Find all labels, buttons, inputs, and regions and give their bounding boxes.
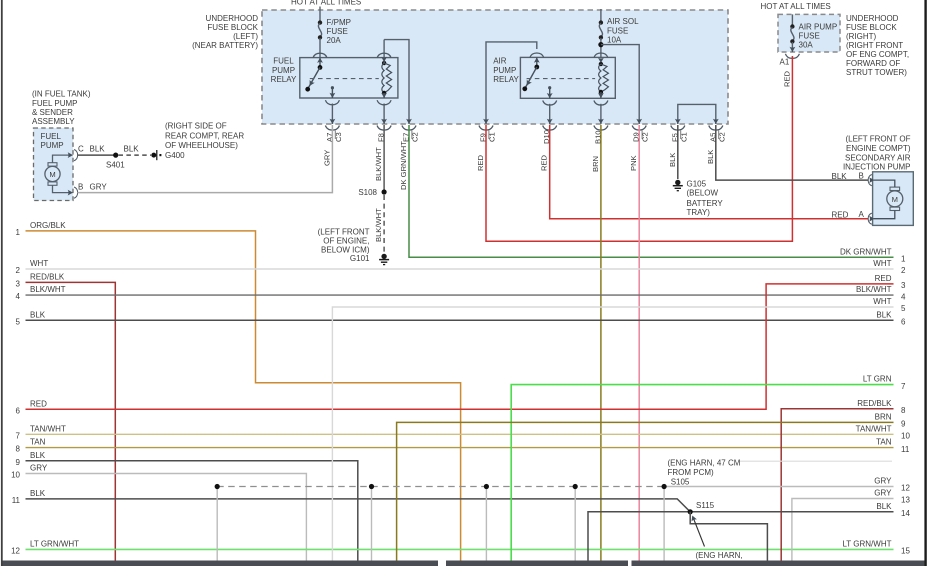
wire S401 to G400 dashed <box>119 154 152 156</box>
wire fuel relay A7 pin to border <box>331 104 333 125</box>
pin A7/C3 connector at border <box>325 126 343 143</box>
label F/PMP FUSE 20A <box>327 18 351 45</box>
svg-text:G101: G101 <box>350 254 370 263</box>
svg-text:UNDERHOOD: UNDERHOOD <box>206 14 259 23</box>
wire air pump pin B to motor <box>874 180 895 187</box>
splice drop wire at 217 <box>216 487 218 561</box>
arrow into air relay switch pin <box>534 57 540 62</box>
svg-text:BLK: BLK <box>876 310 892 319</box>
svg-text:C3: C3 <box>334 132 343 142</box>
svg-text:RED: RED <box>540 154 549 171</box>
svg-text:5: 5 <box>16 317 21 326</box>
svg-text:FUEL: FUEL <box>41 132 62 141</box>
secondary air injection pump box <box>873 172 914 226</box>
svg-text:DK GRN/WHT: DK GRN/WHT <box>840 247 892 256</box>
svg-text:TRAY): TRAY) <box>687 208 711 217</box>
svg-text:10: 10 <box>901 432 910 441</box>
right row labels and numbers <box>840 247 911 555</box>
svg-text:BRN: BRN <box>591 156 600 172</box>
svg-text:(RIGHT FRONT: (RIGHT FRONT <box>846 41 903 50</box>
svg-text:3: 3 <box>16 280 21 289</box>
svg-text:BLK: BLK <box>30 451 46 460</box>
air relay output stub D10 <box>547 86 553 98</box>
connector arc below A1 pin <box>785 54 799 59</box>
wire pin C to S401 <box>78 154 116 156</box>
label (ENG HARN, 47 CM FROM PCM) S105 <box>668 458 741 486</box>
svg-text:BRN: BRN <box>875 413 892 422</box>
svg-text:(RIGHT): (RIGHT) <box>846 32 877 41</box>
svg-text:6: 6 <box>901 317 906 326</box>
svg-text:PUMP: PUMP <box>272 66 295 75</box>
svg-text:BATTERY: BATTERY <box>687 199 724 208</box>
svg-text:RED/BLK: RED/BLK <box>857 399 892 408</box>
fuel pump & sender assembly dashed box <box>34 128 74 201</box>
svg-text:1: 1 <box>901 254 906 263</box>
wire S108 to G101 dashed BLK/WHT <box>383 195 385 253</box>
svg-text:GRY: GRY <box>874 489 892 498</box>
svg-text:TAN: TAN <box>30 438 46 447</box>
svg-text:C1: C1 <box>488 132 497 142</box>
junction AIR SOL fuse output node <box>598 42 603 47</box>
arrow D9 wire at border <box>636 119 642 124</box>
label (LEFT FRONT OF ENGINE, BELOW ICM) G101 <box>318 228 370 263</box>
label FUEL PUMP RELAY <box>271 56 297 84</box>
wire BLK F5 to G105 <box>677 125 679 179</box>
svg-text:UNDERHOOD: UNDERHOOD <box>846 14 899 23</box>
wire PNK D9 down off page <box>638 125 640 561</box>
fuel pump relay U1 box <box>300 58 398 98</box>
svg-text:F/PMP: F/PMP <box>327 18 351 27</box>
svg-text:6: 6 <box>16 406 21 415</box>
fuse AIR SOL 10A <box>599 9 603 57</box>
svg-text:WHT: WHT <box>873 297 891 306</box>
svg-text:BLK/WHT: BLK/WHT <box>374 147 383 181</box>
svg-text:C1: C1 <box>679 132 688 142</box>
splice S105 <box>663 487 665 561</box>
wire row12 LT GRN/WHT <box>11 540 893 556</box>
wire row4 BLK/WHT <box>16 285 894 301</box>
wire fuel pump motor to pin B <box>53 185 69 192</box>
svg-text:3: 3 <box>901 281 906 290</box>
svg-text:2: 2 <box>901 266 906 275</box>
air pump pin B connector <box>868 175 874 186</box>
svg-text:STRUT TOWER): STRUT TOWER) <box>846 68 907 77</box>
connector arc below fuel relay A7 pin <box>325 100 339 105</box>
wire fuel coil top to E7 <box>384 40 409 124</box>
arrow into fuel relay coil top <box>381 57 387 62</box>
connector arc below air relay D10 pin <box>543 101 557 106</box>
svg-text:4: 4 <box>16 292 21 301</box>
svg-text:A: A <box>859 210 865 219</box>
fuel relay coil <box>382 61 392 95</box>
svg-text:G400: G400 <box>165 151 185 160</box>
svg-text:GRY: GRY <box>30 464 48 473</box>
wire fuel coil bottom to F8 border <box>381 93 387 124</box>
wire RED D10 to air pump A <box>550 125 869 219</box>
svg-text:(NEAR BATTERY): (NEAR BATTERY) <box>192 41 258 50</box>
pin B10 connector at border <box>593 126 608 145</box>
svg-text:RELAY: RELAY <box>493 75 519 84</box>
svg-text:BLK: BLK <box>668 153 677 167</box>
svg-text:PUMP: PUMP <box>493 66 516 75</box>
svg-text:BLK: BLK <box>30 489 46 498</box>
svg-text:INJECTION PUMP: INJECTION PUMP <box>843 162 911 171</box>
pin E7/C2 connector at border <box>402 126 420 143</box>
svg-text:2: 2 <box>16 266 21 275</box>
air relay dashed actuator line <box>527 78 596 80</box>
svg-text:RED/BLK: RED/BLK <box>30 273 65 282</box>
svg-text:FUEL PUMP: FUEL PUMP <box>32 99 78 108</box>
svg-text:B: B <box>859 172 864 181</box>
pin A5/C2 connector at border <box>708 126 726 143</box>
wire right row7 LT GRN <box>511 385 893 561</box>
fuel relay output stub A7 <box>330 86 336 98</box>
splice S108 <box>382 189 387 194</box>
wire row1 ORG/BLK <box>16 221 461 561</box>
svg-text:RED: RED <box>832 210 849 219</box>
svg-text:FUSE: FUSE <box>327 27 348 36</box>
air relay switch <box>522 57 539 91</box>
svg-text:M: M <box>892 195 898 204</box>
svg-text:HOT AT ALL TIMES: HOT AT ALL TIMES <box>291 0 361 6</box>
connector arc above air relay switch pin <box>530 53 544 58</box>
svg-text:12: 12 <box>11 547 20 556</box>
svg-text:ENGINE COMPT): ENGINE COMPT) <box>846 144 911 153</box>
svg-text:BLK: BLK <box>832 172 848 181</box>
wire row6 RED to right row3 <box>16 284 894 416</box>
svg-text:9: 9 <box>901 420 906 429</box>
svg-text:(ENG HARN,: (ENG HARN, <box>696 551 743 560</box>
svg-text:8: 8 <box>16 445 21 454</box>
svg-text:ASSEMBLY: ASSEMBLY <box>32 117 75 126</box>
svg-text:FUSE: FUSE <box>607 26 628 35</box>
svg-text:9: 9 <box>16 458 21 467</box>
svg-text:LT GRN: LT GRN <box>863 375 892 384</box>
svg-text:BLK: BLK <box>876 502 892 511</box>
svg-text:AIR: AIR <box>493 56 507 65</box>
svg-text:11: 11 <box>901 445 910 454</box>
svg-text:B: B <box>78 182 83 191</box>
svg-text:C2: C2 <box>411 132 420 142</box>
svg-text:7: 7 <box>901 382 906 391</box>
arrow F9 wire at border <box>483 119 489 124</box>
connector arc above air relay coil pin <box>594 53 608 58</box>
svg-text:M: M <box>49 170 55 179</box>
splice S115 <box>688 509 693 514</box>
wire row3 RED/BLK <box>16 273 116 561</box>
wire right row14 BLK <box>588 512 894 561</box>
label underhood fuse block left <box>192 14 259 50</box>
wire fuel pump motor to pin C <box>53 155 69 163</box>
fuel pump motor M <box>45 163 60 186</box>
svg-text:FUSE BLOCK: FUSE BLOCK <box>846 23 897 32</box>
svg-text:GRY: GRY <box>90 182 108 191</box>
wire row2 WHT <box>16 259 894 275</box>
svg-text:TAN/WHT: TAN/WHT <box>30 424 66 433</box>
wire S115 lower branch <box>690 512 767 561</box>
splice drop wire at 575 <box>574 487 576 561</box>
air pump pin A connector <box>868 213 874 224</box>
svg-text:10A: 10A <box>607 35 622 44</box>
label underhood fuse block right <box>846 14 909 77</box>
wire row11 BLK left to S115 <box>12 489 691 512</box>
wire F5 A5 staple <box>678 104 716 124</box>
S115 annotation arrow <box>690 514 705 546</box>
svg-text:4: 4 <box>901 292 906 301</box>
label FUEL PUMP inside box <box>41 132 64 150</box>
ground G400 <box>151 150 161 160</box>
svg-text:DK GRN/WHT: DK GRN/WHT <box>399 141 408 190</box>
pin F9/C1 connector at border <box>479 126 497 143</box>
svg-text:WHT: WHT <box>873 259 891 268</box>
svg-text:20A: 20A <box>327 36 342 45</box>
svg-text:13: 13 <box>901 496 910 505</box>
svg-text:10: 10 <box>11 471 20 480</box>
wire row7 TAN/WHT <box>16 424 894 440</box>
svg-text:S401: S401 <box>106 160 125 169</box>
svg-text:BLK: BLK <box>30 310 46 319</box>
wire air relay switch feed loop to F9 <box>486 42 537 124</box>
wire BLK A5 to air pump B <box>716 125 869 180</box>
svg-text:RED: RED <box>30 399 47 408</box>
svg-text:FUEL: FUEL <box>273 56 294 65</box>
arrow into fuel relay switch pin <box>317 58 323 63</box>
svg-text:GRY: GRY <box>322 150 331 166</box>
svg-text:LT GRN/WHT: LT GRN/WHT <box>30 540 79 549</box>
wire row5 BLK <box>16 310 894 326</box>
svg-text:REAR COMPT, REAR: REAR COMPT, REAR <box>165 131 244 140</box>
splice drop wire at 486 <box>485 487 487 561</box>
svg-text:HOT AT ALL TIMES: HOT AT ALL TIMES <box>761 2 831 11</box>
arrow into air relay coil top <box>598 58 604 63</box>
svg-text:A1: A1 <box>780 57 790 66</box>
ground G101 <box>379 254 389 265</box>
wire S105 dashed GRY row12 <box>217 486 893 488</box>
air pump motor M <box>887 187 903 210</box>
svg-text:AIR PUMP: AIR PUMP <box>799 22 838 31</box>
pin B connector <box>68 187 78 198</box>
pin D9/C2 connector at border <box>632 126 650 143</box>
wire right row5 WHT <box>332 307 893 561</box>
svg-text:(LEFT FRONT: (LEFT FRONT <box>318 228 370 237</box>
svg-text:GRY: GRY <box>874 477 892 486</box>
splice drop wire at 371 <box>371 487 373 561</box>
underhood fuse block (left) dashed box <box>262 10 728 124</box>
svg-text:OF ENGINE,: OF ENGINE, <box>323 237 369 246</box>
label (LEFT FRONT OF ENGINE COMPT) SECONDARY AIR INJECTION PUMP <box>843 135 911 172</box>
wire right row13 GRY <box>792 499 894 561</box>
svg-text:RED: RED <box>875 274 892 283</box>
svg-text:15: 15 <box>901 547 910 556</box>
svg-text:(LEFT FRONT OF: (LEFT FRONT OF <box>845 135 910 144</box>
svg-text:& SENDER: & SENDER <box>32 108 73 117</box>
svg-text:TAN/WHT: TAN/WHT <box>856 424 892 433</box>
svg-text:30A: 30A <box>799 41 814 50</box>
fuel relay dashed actuator line <box>310 78 379 80</box>
svg-text:(RIGHT SIDE OF: (RIGHT SIDE OF <box>165 121 227 130</box>
wire DK GRN/WHT E7 to row 1 right <box>409 125 894 257</box>
svg-text:BLK/WHT: BLK/WHT <box>856 285 892 294</box>
label (RIGHT SIDE OF REAR COMPT, REAR OF WHEELHOUSE) G400 <box>165 121 244 160</box>
pin C connector <box>68 150 78 161</box>
svg-text:C2: C2 <box>717 132 726 142</box>
svg-text:WHT: WHT <box>30 259 48 268</box>
svg-text:FUSE BLOCK: FUSE BLOCK <box>207 23 258 32</box>
connector arc below air relay B10 pin <box>594 101 608 106</box>
fuel relay switch <box>305 58 322 92</box>
faint unlabeled row <box>740 460 892 462</box>
wire row8 TAN <box>16 438 894 454</box>
svg-text:BLK/WHT: BLK/WHT <box>30 285 66 294</box>
svg-text:S108: S108 <box>358 188 377 197</box>
svg-text:7: 7 <box>16 431 21 440</box>
wire air relay D10 pin to border <box>549 104 551 124</box>
wire fuse to D9 branch <box>601 45 639 124</box>
wire right row8 RED/BLK <box>781 409 893 561</box>
page left border <box>1 0 3 566</box>
svg-text:BLK: BLK <box>124 144 140 153</box>
svg-text:LT GRN/WHT: LT GRN/WHT <box>842 540 891 549</box>
svg-text:(BELOW: (BELOW <box>687 189 719 198</box>
splice S401 <box>113 153 118 158</box>
svg-text:FORWARD OF: FORWARD OF <box>846 59 900 68</box>
svg-text:(LEFT): (LEFT) <box>233 32 258 41</box>
fuse F/PMP 20A <box>318 7 322 58</box>
svg-text:FROM PCM): FROM PCM) <box>668 468 715 477</box>
svg-text:RED: RED <box>782 70 791 87</box>
pin D10 connector at border <box>542 126 557 145</box>
wire right row9 BRN <box>397 422 894 560</box>
connector arc above fuel relay coil pin <box>377 53 391 58</box>
svg-text:G105: G105 <box>687 180 707 189</box>
svg-text:1: 1 <box>16 228 21 237</box>
svg-text:8: 8 <box>901 406 906 415</box>
arrow E7 wire at border <box>406 119 412 124</box>
label AIR PUMP FUSE 30A <box>799 22 838 49</box>
svg-text:C2: C2 <box>641 132 650 142</box>
label AIR PUMP RELAY <box>493 56 519 84</box>
air relay coil <box>599 62 609 94</box>
svg-text:14: 14 <box>901 509 910 518</box>
svg-text:5: 5 <box>901 304 906 313</box>
wire row9 BLK left <box>16 451 358 561</box>
wire air coil bottom to B10 border <box>598 92 604 124</box>
underhood fuse block (right) dashed box <box>778 14 840 52</box>
svg-text:FUSE: FUSE <box>799 31 820 40</box>
wire row10 GRY left <box>11 464 306 561</box>
svg-text:RELAY: RELAY <box>271 75 297 84</box>
pin F8 connector at border <box>377 126 392 143</box>
svg-text:OF ENG COMPT,: OF ENG COMPT, <box>846 50 909 59</box>
wire BRN B10 down off page <box>600 125 602 561</box>
pin F5/C1 connector at border <box>670 126 688 143</box>
svg-text:BLK: BLK <box>706 150 715 164</box>
svg-text:C: C <box>78 144 84 153</box>
connector arc below fuel relay F8 pin <box>377 100 391 105</box>
wire air pump pin A to motor <box>874 211 895 219</box>
svg-text:(IN FUEL TANK): (IN FUEL TANK) <box>32 89 91 98</box>
fuse AIR PUMP 30A <box>790 14 796 52</box>
svg-text:RED: RED <box>476 154 485 171</box>
svg-text:OF WHEELHOUSE): OF WHEELHOUSE) <box>165 141 238 150</box>
svg-text:BLK: BLK <box>90 144 106 153</box>
svg-text:PUMP: PUMP <box>41 141 64 150</box>
svg-text:BLK/WHT: BLK/WHT <box>374 208 383 242</box>
svg-text:11: 11 <box>12 496 21 505</box>
svg-text:AIR SOL: AIR SOL <box>607 17 639 26</box>
wire BLK/WHT F8 to S108 <box>383 125 385 192</box>
label (IN FUEL TANK) FUEL PUMP & SENDER ASSEMBLY <box>32 89 91 126</box>
svg-text:SECONDARY AIR: SECONDARY AIR <box>845 153 911 162</box>
svg-text:S105: S105 <box>671 477 690 486</box>
label G105 (BELOW BATTERY TRAY) <box>687 180 724 218</box>
label AIR SOL FUSE 10A <box>607 17 639 44</box>
wire GRY fuel pump B to A7 <box>78 125 333 193</box>
connector arc above fuel relay switch pin <box>313 53 327 58</box>
svg-text:ORG/BLK: ORG/BLK <box>30 221 66 230</box>
ground G105 <box>673 180 683 191</box>
svg-text:S115: S115 <box>696 501 715 510</box>
wire RED F9 to A1 fuse <box>486 56 792 241</box>
svg-text:12: 12 <box>901 484 910 493</box>
page bottom bar <box>2 561 926 566</box>
svg-text:(ENG HARN, 47 CM: (ENG HARN, 47 CM <box>668 458 741 467</box>
air pump relay U2 box <box>520 57 615 98</box>
page right border <box>924 0 926 566</box>
svg-text:TAN: TAN <box>876 438 892 447</box>
svg-text:PNK: PNK <box>629 155 638 171</box>
